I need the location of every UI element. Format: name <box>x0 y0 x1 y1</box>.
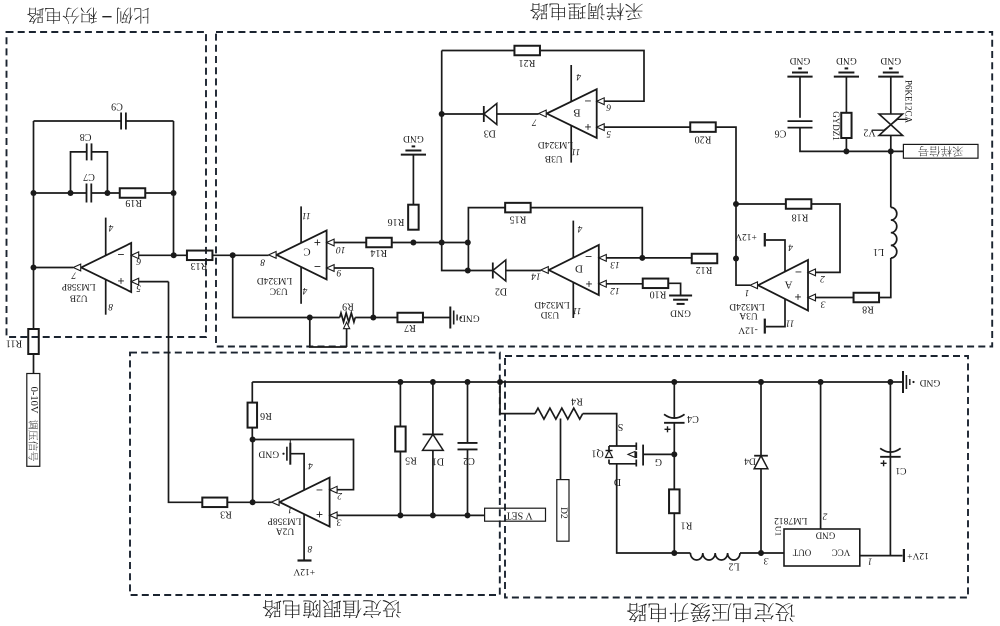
svg-text:U2A: U2A <box>276 526 295 536</box>
svg-text:4: 4 <box>577 223 582 233</box>
U3D output pin 14 <box>531 270 541 280</box>
node junction rail C2 <box>465 379 471 385</box>
resistor R5 <box>395 427 417 466</box>
svg-text:1: 1 <box>868 556 873 566</box>
svg-text:C6: C6 <box>775 128 787 139</box>
wire D1 bottom <box>432 450 434 515</box>
node junction R19 right <box>171 190 177 196</box>
svg-text:3: 3 <box>336 516 342 526</box>
svg-text:2: 2 <box>820 273 825 283</box>
resistor R11 <box>6 329 39 354</box>
node junction D3 <box>439 111 445 117</box>
U2B pin 5 input <box>131 278 168 292</box>
svg-text:L1: L1 <box>873 246 884 257</box>
wire feedback right rail <box>173 193 175 255</box>
inductor L1 <box>873 207 897 258</box>
svg-text:+: + <box>117 274 124 288</box>
U3C pin 11 line <box>301 206 311 243</box>
svg-text:3: 3 <box>763 555 769 565</box>
svg-text:LM358P: LM358P <box>268 516 302 526</box>
op-amp U2A <box>272 478 330 527</box>
U2A output wire pin 1 <box>253 502 293 514</box>
wire D2 to U3D output <box>506 270 541 272</box>
svg-text:OUT: OUT <box>792 548 811 558</box>
wire R12 left to pin13 node <box>642 257 692 259</box>
wire sample rail <box>846 150 903 152</box>
U3A pin 2 input <box>808 269 825 283</box>
resistor R10 <box>643 279 669 300</box>
svg-text:R8: R8 <box>862 304 874 315</box>
node junction drain/R1/L2 <box>671 550 677 556</box>
svg-text:G: G <box>655 456 662 467</box>
diode D3 <box>484 104 497 139</box>
svg-text:VCC: VCC <box>832 548 851 558</box>
U3A output pin 1 <box>745 287 750 297</box>
ground GND above GYDZ1 <box>834 55 859 77</box>
svg-text:C9: C9 <box>111 101 123 112</box>
svg-text:LM324D: LM324D <box>538 139 574 149</box>
wire R1 top <box>673 454 675 489</box>
wire R20 to column <box>716 127 736 204</box>
svg-text:8: 8 <box>260 257 265 267</box>
svg-text:8: 8 <box>307 543 312 553</box>
terminal box 采样信号 <box>903 144 978 158</box>
U3C pin 10 input <box>327 239 367 254</box>
ground GND above V2 <box>878 55 903 77</box>
resistor R13 <box>187 251 213 271</box>
resistor R6 <box>248 403 272 428</box>
node junction feedback to R13 <box>171 252 177 258</box>
svg-text:2: 2 <box>337 490 342 500</box>
wire D2 node <box>468 270 493 272</box>
svg-text:9: 9 <box>336 267 341 277</box>
wire C8 loop <box>71 152 108 193</box>
wire R6 node to output node <box>252 440 254 503</box>
wire C1 column <box>889 382 891 556</box>
svg-text:U1: U1 <box>773 526 783 536</box>
wire U1 pin 2 <box>821 382 828 529</box>
svg-text:S: S <box>618 421 624 432</box>
wire GND to GYDZ1 <box>845 77 847 113</box>
U2A pin 8 +12V <box>293 514 315 576</box>
ground GND at R16 <box>401 133 426 155</box>
wire U3C pin10 to R14 rail <box>391 242 468 244</box>
wire R15 right corner <box>531 208 642 258</box>
wire R5 bottom <box>399 452 401 516</box>
svg-text:3: 3 <box>820 299 826 309</box>
wire R6 down <box>251 428 253 440</box>
ground GND box4 <box>890 371 940 393</box>
node junction rail pin2 <box>818 379 824 385</box>
U2A pin 3 input <box>330 512 485 526</box>
wire R10 to GND <box>669 283 681 295</box>
svg-text:−: − <box>584 94 591 108</box>
wire V2 down <box>890 135 892 151</box>
capacitor C8 <box>80 131 92 160</box>
potentiometer R9 <box>340 301 356 323</box>
U3D pin 12 input <box>599 280 643 294</box>
node junction rail GND right <box>887 379 893 385</box>
wire R8 to L1 <box>879 258 891 298</box>
resistor R1 <box>669 489 692 530</box>
svg-text:R1: R1 <box>681 520 693 531</box>
wire R18 to pin2 <box>812 204 840 272</box>
node junction C8 loop right <box>104 190 110 196</box>
node junction rail D4 <box>758 379 764 385</box>
svg-text:LM324D: LM324D <box>257 275 293 285</box>
wire C4 bottom <box>673 423 675 455</box>
title 比例-积分电路 <box>27 8 149 24</box>
wire GND to V2 <box>890 77 892 114</box>
svg-text:+: + <box>314 236 321 250</box>
svg-text:−: − <box>314 260 321 274</box>
title 设定电压缓升电路 <box>627 603 795 622</box>
svg-text:R6: R6 <box>260 410 272 421</box>
wire U3A output corner <box>736 259 750 286</box>
svg-text:C: C <box>303 246 310 258</box>
wire L2 lead <box>674 552 690 554</box>
svg-text:C4: C4 <box>687 413 699 424</box>
U3B pin 6 input <box>597 98 611 112</box>
svg-text:V SET: V SET <box>505 510 532 521</box>
svg-text:4: 4 <box>308 460 313 470</box>
wire L2 to regulator <box>740 552 761 554</box>
power -12V U3A <box>738 319 765 335</box>
svg-text:GYDZ1: GYDZ1 <box>831 111 841 141</box>
svg-text:LM324D: LM324D <box>534 299 570 309</box>
node junction R12/U3A output <box>733 256 739 262</box>
svg-text:LM7812: LM7812 <box>774 515 808 525</box>
op-amp U3D labels <box>534 249 592 319</box>
wire R4 tap to D2 <box>560 419 562 480</box>
title 设定值跟随电路 <box>263 600 401 618</box>
resistor R20 <box>690 122 716 144</box>
node junction C8 loop left <box>68 190 74 196</box>
svg-text:P6KE12CA: P6KE12CA <box>904 80 914 124</box>
ground GND at U2A pin4 <box>258 440 290 465</box>
svg-text:B: B <box>573 107 580 119</box>
svg-text:GND: GND <box>403 133 424 143</box>
svg-text:4: 4 <box>576 71 581 81</box>
title 采样调理电路 <box>530 3 643 20</box>
dashed box: setpoint follower block (设定值跟随电路) <box>130 353 500 595</box>
svg-text:11: 11 <box>302 210 311 220</box>
svg-text:13: 13 <box>610 259 620 269</box>
node junction rail R5 <box>397 379 403 385</box>
node junction gate/C4/R1 <box>671 451 677 457</box>
svg-text:LM324D: LM324D <box>729 301 765 311</box>
svg-text:−: − <box>585 249 592 263</box>
svg-text:Q1: Q1 <box>591 448 603 459</box>
U3A pin 4 elbow +12V <box>766 240 793 272</box>
svg-text:0-10V: 0-10V <box>28 387 39 414</box>
U3B pin 5 input <box>597 124 690 138</box>
wire R11 to input box <box>33 354 35 374</box>
node junction GYDZ1 bottom <box>843 148 849 154</box>
resistor R18 <box>736 199 811 222</box>
svg-text:GND: GND <box>836 55 857 65</box>
svg-text:GND: GND <box>670 308 691 318</box>
U2A pin 4 elbow <box>290 454 313 491</box>
wire GYDZ1 down <box>845 138 847 151</box>
svg-text:U2B: U2B <box>70 293 88 303</box>
svg-text:U3D: U3D <box>541 309 560 319</box>
wire D3 column <box>442 51 468 271</box>
node junction D3 column/R14 rail <box>439 240 445 246</box>
svg-text:D2: D2 <box>558 507 568 519</box>
wire R7 to GND <box>423 317 450 319</box>
svg-text:4: 4 <box>108 222 113 232</box>
svg-text:−: − <box>117 248 124 262</box>
power 12V+ bar <box>904 549 929 562</box>
node junction R9 left <box>307 315 313 321</box>
wire U3C pin9 corner <box>372 268 374 318</box>
U3B pin 4 line <box>571 65 581 102</box>
node junction rail C4 <box>671 379 677 385</box>
wire GND to C6 <box>799 77 801 118</box>
svg-text:R14: R14 <box>370 247 387 258</box>
U2B pin 4 line <box>106 218 114 256</box>
input box 0-10V signal <box>27 374 40 467</box>
wire left rail box1 <box>33 121 35 329</box>
U3B pin 11 line <box>571 125 580 162</box>
diode box D2 <box>557 480 569 542</box>
node junction U2A output <box>250 499 256 505</box>
svg-text:R12: R12 <box>696 264 713 275</box>
resistor R8 <box>854 293 880 315</box>
svg-text:4: 4 <box>302 285 307 295</box>
svg-text:12: 12 <box>610 285 620 295</box>
svg-text:7: 7 <box>531 117 537 127</box>
svg-text:GND: GND <box>815 531 835 541</box>
svg-text:D2: D2 <box>495 286 507 297</box>
op-amp U3C labels <box>257 236 321 296</box>
svg-text:A: A <box>784 279 792 291</box>
svg-text:GND: GND <box>258 449 279 459</box>
wire D1 top <box>432 382 434 434</box>
svg-text:R15: R15 <box>510 214 527 225</box>
wire R9 to R7 <box>373 317 398 319</box>
svg-text:R3: R3 <box>220 508 232 519</box>
wire R21 loop <box>442 51 644 102</box>
wire C9 top loop <box>34 121 174 193</box>
op-amp U2A labels <box>268 483 323 536</box>
svg-text:C7: C7 <box>83 171 95 182</box>
dashed box: PI regulator block (比例-积分电路) <box>7 32 207 337</box>
wire R4 to MOSFET S <box>583 414 624 446</box>
wire D3 junction to diode <box>442 113 484 115</box>
wire C4 top <box>673 382 675 418</box>
svg-text:6: 6 <box>136 255 141 265</box>
wire R9 rail <box>310 317 374 319</box>
U2A pin 2 input <box>330 486 342 500</box>
U3D pin 13 input <box>599 255 643 269</box>
U3C pin 9 input <box>327 265 374 277</box>
node junction rail D1 <box>430 379 436 385</box>
node junction bottom R5 <box>397 512 403 518</box>
svg-text:1: 1 <box>745 287 750 297</box>
svg-text:5: 5 <box>606 128 611 138</box>
node junction bottom C2 <box>465 512 471 518</box>
U3A pin 3 input <box>808 294 854 309</box>
resistor R14 <box>366 238 392 258</box>
diode D4 <box>744 455 768 468</box>
resistor R4 <box>535 396 583 420</box>
capacitor C6 <box>775 121 813 138</box>
transistor Q1 MOSFET <box>591 443 662 488</box>
svg-text:+: + <box>584 120 591 134</box>
varistor GYDZ1 <box>831 111 852 141</box>
svg-text:U3C: U3C <box>270 286 288 296</box>
svg-text:2: 2 <box>822 510 827 520</box>
wire L1 to sample node <box>890 151 892 207</box>
node junction C9/R19 rail left <box>31 190 37 196</box>
node junction L2/D4/pin3 <box>758 550 764 556</box>
node junction rail R4 tap <box>497 379 503 385</box>
U2B output wire pin 7 <box>34 268 77 280</box>
inductor L2 <box>690 553 740 572</box>
op-amp U3A <box>750 260 808 311</box>
U3D pin 4 line <box>573 221 582 258</box>
svg-text:14: 14 <box>531 270 541 280</box>
svg-text:U3B: U3B <box>545 153 563 163</box>
node junction R15/R12/pin13 <box>639 255 645 261</box>
svg-text:+: + <box>794 290 801 304</box>
op-amp U2B <box>73 243 131 292</box>
wire feedback loop U2A <box>253 440 354 490</box>
op-amp U2B labels <box>62 248 125 303</box>
wire R19 rail <box>34 192 174 194</box>
wire R16 to GND <box>412 155 414 205</box>
U3A pin 11 elbow -12V <box>766 299 794 328</box>
svg-text:5: 5 <box>136 283 141 293</box>
wire output to R3 <box>227 501 252 503</box>
ground GND at R10 <box>669 296 692 318</box>
svg-text:R19: R19 <box>125 197 142 208</box>
wire pin3 to regulator <box>761 553 784 565</box>
svg-text:11: 11 <box>573 305 582 315</box>
svg-text:D3: D3 <box>484 128 496 139</box>
capacitor C9 <box>111 101 126 130</box>
resistor R3 <box>202 498 232 520</box>
svg-text:R20: R20 <box>695 134 712 145</box>
op-amp U3D <box>541 245 599 295</box>
svg-text:L2: L2 <box>728 561 739 572</box>
svg-text:R16: R16 <box>388 216 405 227</box>
svg-text:8: 8 <box>108 301 113 311</box>
svg-text:R7: R7 <box>404 322 416 333</box>
resistor R16 <box>388 205 419 230</box>
node junction R6/feedback <box>250 437 256 443</box>
U2B pin 6 input <box>131 252 187 265</box>
wire U1 pin 1 to 12V <box>860 556 903 566</box>
op-amp U3A labels <box>729 265 802 320</box>
svg-text:+: + <box>585 277 592 291</box>
op-amp U3B <box>539 89 597 138</box>
resistor R21 <box>514 46 540 68</box>
dashed box: sampling conditioning block (采样调理电路) <box>216 32 992 347</box>
svg-text:12V+: 12V+ <box>907 550 929 560</box>
wire top supply rail <box>252 381 890 383</box>
svg-text:V2: V2 <box>863 127 875 138</box>
node junction R15 column/R14 rail <box>465 240 471 246</box>
svg-text:-12V: -12V <box>738 325 758 335</box>
svg-text:C2: C2 <box>463 455 475 466</box>
svg-text:R10: R10 <box>650 289 667 300</box>
svg-text:R4: R4 <box>571 396 583 407</box>
ground GND above C6 <box>787 55 812 77</box>
svg-text:R13: R13 <box>191 260 208 271</box>
svg-text:R5: R5 <box>405 455 417 466</box>
svg-text:C1: C1 <box>895 465 906 475</box>
svg-text:GND: GND <box>459 313 480 323</box>
capacitor C1 polarized <box>880 448 906 475</box>
wire branch down to R9 rail <box>233 255 310 317</box>
capacitor C7 <box>83 171 95 203</box>
op-amp U3C <box>269 230 327 279</box>
wire R1 bottom <box>673 513 675 553</box>
node junction bottom D1 <box>430 512 436 518</box>
diode D1 <box>423 434 445 466</box>
resistor R12 <box>692 254 718 275</box>
svg-text:6: 6 <box>606 101 611 111</box>
terminal box V SET <box>485 508 546 521</box>
node junction R15/D2 wire <box>465 268 471 274</box>
wire R3 to U2B pin5 riser <box>169 282 203 503</box>
diode D2 <box>493 260 507 297</box>
wire R5 top <box>399 382 401 427</box>
resistor R7 <box>397 313 423 333</box>
U2B pin 8 line <box>106 280 113 315</box>
wire R4 branch <box>500 382 535 414</box>
node junction R9 right <box>370 315 376 321</box>
wire column R18 to R12 <box>735 204 737 259</box>
svg-text:GND: GND <box>790 55 811 65</box>
resistor R15 <box>505 203 531 225</box>
node junction R13/U3C/R9 branch <box>230 252 236 258</box>
svg-text:R9: R9 <box>342 301 354 312</box>
capacitor C4 polarized <box>664 413 699 432</box>
svg-text:GND: GND <box>880 55 901 65</box>
svg-text:D: D <box>575 263 583 275</box>
wire D4 column <box>760 382 762 553</box>
U3B output pin 7 <box>531 117 537 127</box>
svg-text:10: 10 <box>336 244 346 254</box>
wire R15 left corner <box>468 208 504 271</box>
wire R6 drop <box>251 382 253 403</box>
wire D3 to U3B output <box>497 113 539 115</box>
U3D pin 11 line <box>573 283 582 319</box>
svg-text:7: 7 <box>70 270 76 280</box>
svg-text:C8: C8 <box>80 131 92 142</box>
svg-text:U3A: U3A <box>739 310 758 320</box>
svg-text:4: 4 <box>788 242 793 252</box>
dashed box: voltage ramp block (设定电压缓升电路) <box>505 356 968 598</box>
TVS diode V2 P6KE12CA <box>863 80 913 138</box>
R9 wiper arrow <box>310 318 350 348</box>
node junction R14/R16 <box>410 240 416 246</box>
wire C6 down corner <box>800 128 846 152</box>
wire C2 bottom <box>467 450 469 516</box>
svg-text:GND: GND <box>920 377 941 387</box>
power +12V U3A <box>735 231 765 247</box>
node junction R18 tap <box>733 201 739 207</box>
node junction U2B output <box>31 265 37 271</box>
wire Q1 gate <box>643 453 674 455</box>
wire C2 top <box>467 382 469 443</box>
svg-text:D4: D4 <box>744 455 756 465</box>
svg-text:LM358P: LM358P <box>62 281 96 291</box>
